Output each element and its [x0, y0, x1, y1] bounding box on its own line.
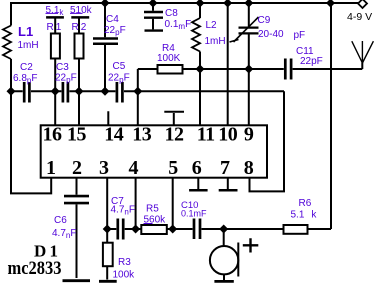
svg-text:R6: R6 [299, 198, 312, 209]
svg-text:pF: pF [294, 30, 306, 41]
svg-text:14: 14 [104, 124, 124, 146]
svg-text:4.7nF: 4.7nF [111, 205, 135, 217]
svg-text:R5: R5 [146, 204, 159, 215]
svg-text:13: 13 [132, 124, 152, 146]
svg-text:5.1k: 5.1k [46, 5, 65, 17]
svg-text:22pF: 22pF [300, 56, 323, 67]
svg-text:C6: C6 [54, 215, 67, 226]
svg-text:6: 6 [192, 157, 202, 179]
svg-text:22pF: 22pF [55, 73, 77, 85]
svg-text:R2: R2 [72, 22, 89, 33]
svg-text:C8: C8 [165, 8, 178, 19]
svg-text:R3: R3 [118, 257, 131, 268]
svg-text:10: 10 [218, 124, 238, 146]
svg-text:C5: C5 [113, 61, 126, 72]
svg-text:560k: 560k [144, 215, 167, 226]
svg-text:L1: L1 [18, 24, 33, 39]
svg-text:4.7nF: 4.7nF [52, 228, 76, 240]
svg-text:9: 9 [244, 124, 254, 146]
svg-text:C4: C4 [106, 14, 119, 25]
svg-text:0.1mF: 0.1mF [165, 19, 192, 31]
svg-text:510k: 510k [70, 5, 93, 16]
svg-text:5: 5 [168, 157, 178, 179]
svg-text:4: 4 [128, 157, 138, 179]
svg-text:4-9 V: 4-9 V [347, 11, 372, 23]
svg-text:16: 16 [43, 124, 63, 146]
svg-text:6.8pF: 6.8pF [13, 73, 37, 85]
svg-text:100k: 100k [113, 270, 136, 281]
svg-text:7: 7 [220, 157, 230, 179]
svg-text:L2: L2 [206, 20, 218, 31]
svg-text:1mH: 1mH [18, 40, 39, 51]
svg-text:20-40: 20-40 [258, 29, 284, 40]
svg-text:1mH: 1mH [205, 36, 226, 47]
svg-text:C9: C9 [258, 15, 271, 26]
svg-text:8: 8 [244, 157, 254, 179]
svg-text:22pF: 22pF [108, 73, 130, 85]
svg-text:5.1k: 5.1k [291, 210, 318, 221]
svg-text:100K: 100K [157, 53, 181, 64]
svg-text:C3: C3 [56, 62, 69, 73]
svg-text:3: 3 [99, 157, 109, 179]
svg-text:mc2833: mc2833 [8, 258, 62, 279]
svg-text:22pF: 22pF [104, 25, 126, 37]
svg-text:11: 11 [197, 124, 215, 146]
svg-text:12: 12 [165, 124, 185, 146]
svg-text:C2: C2 [20, 62, 33, 73]
svg-text:1: 1 [46, 157, 56, 179]
svg-text:R1: R1 [47, 22, 64, 33]
svg-text:0.1mF: 0.1mF [181, 209, 207, 219]
svg-text:2: 2 [72, 157, 82, 179]
svg-text:15: 15 [67, 124, 87, 146]
